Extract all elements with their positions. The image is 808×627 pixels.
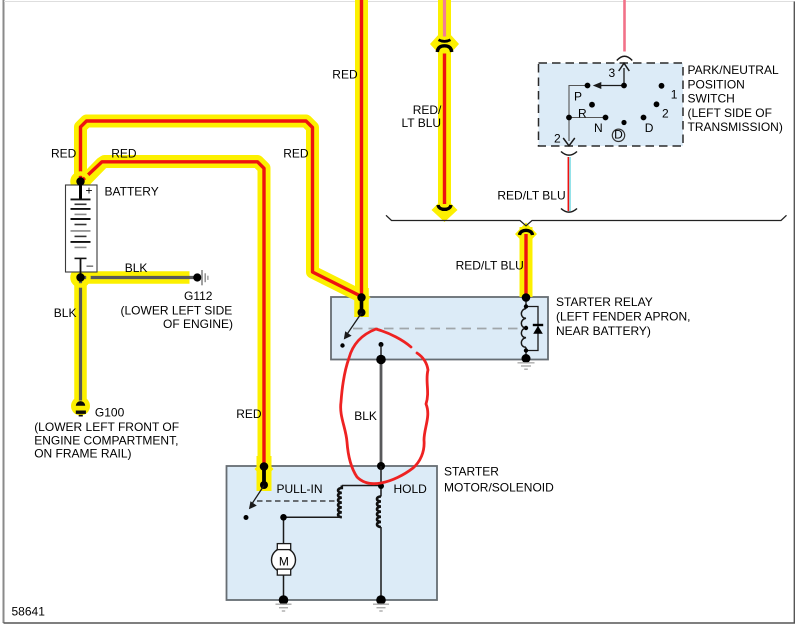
svg-text:POSITION: POSITION <box>688 77 745 91</box>
hl stub battery top <box>75 180 87 199</box>
wire hl: RED/LT BLU vertical feed <box>438 0 451 216</box>
svg-text:+: + <box>86 184 93 198</box>
svg-text:2: 2 <box>554 132 561 146</box>
wiper arrowhead <box>593 82 602 89</box>
solenoid switch blade (open contact arrow) <box>252 486 265 505</box>
wire: RED/LT BLU pair switch pin2 to bus (red + lt blue) <box>567 157 569 211</box>
wire: BLK battery- down to G100 <box>79 274 82 401</box>
wire: RED battery+ to relay switch (corner run) <box>81 121 362 297</box>
relay switch input terminal stub <box>360 298 364 313</box>
svg-text:RED: RED <box>332 68 358 82</box>
svg-text:3: 3 <box>609 66 616 80</box>
svg-text:RED: RED <box>236 407 262 421</box>
pull-in coil winding <box>338 486 342 518</box>
wire: pink RED/LT BLU to park/neutral switch pin 3 <box>623 0 626 52</box>
svg-text:G100: G100 <box>95 406 125 420</box>
battery top stub <box>79 182 82 199</box>
wire: BLK relay to starter motor hold <box>380 360 383 467</box>
switch wiper and contact wiring <box>599 68 624 86</box>
hl blob G100 <box>71 397 90 416</box>
motor bottom ground nodes <box>279 595 289 605</box>
connector caps on RED/LT BLU feed (inline pair) <box>439 40 451 42</box>
solenoid fixed contact <box>244 515 249 520</box>
circled D indicator <box>612 129 624 141</box>
svg-text:SWITCH: SWITCH <box>688 92 735 106</box>
bus brace RED/LT BLU <box>386 215 787 226</box>
relay coil nodes <box>522 293 531 302</box>
hl diamond motor terminal <box>255 459 274 479</box>
park/neutral position switch box <box>539 63 684 146</box>
relay switch blade (open contact arrow) <box>347 313 362 335</box>
relay ground symbol <box>518 363 535 369</box>
svg-text:HOLD: HOLD <box>394 482 428 496</box>
svg-text:RED: RED <box>283 146 309 160</box>
relay output node to BLK wire <box>379 342 384 347</box>
svg-text:RED/LT BLU: RED/LT BLU <box>456 259 524 273</box>
starter motor/solenoid box <box>227 466 438 600</box>
R row link line <box>569 117 606 119</box>
diode (relay clamp) <box>533 324 543 326</box>
ground under hold coil <box>373 604 389 611</box>
svg-text:ENGINE COMPARTMENT,: ENGINE COMPARTMENT, <box>34 433 178 447</box>
svg-text:M: M <box>279 554 289 568</box>
svg-text:RED: RED <box>111 146 137 160</box>
svg-text:2: 2 <box>662 106 669 120</box>
svg-text:PULL-IN: PULL-IN <box>277 482 323 496</box>
halo ring battery - <box>73 270 89 286</box>
wire hl: BLK battery- to G100 <box>74 274 87 403</box>
svg-text:RED/: RED/ <box>413 103 442 117</box>
relay coil L1 <box>525 298 527 309</box>
battery box <box>66 185 98 272</box>
motor dashed actuation line <box>257 500 336 502</box>
wire hl: BLK battery- to G112 <box>77 271 190 284</box>
wiper line to P <box>599 85 624 87</box>
hl diamond inline connector upper <box>430 28 459 60</box>
pull-in coil top link to hold junction <box>342 485 381 487</box>
P contact to pin 2 exit path <box>569 86 588 142</box>
hold coil line from top <box>377 462 385 470</box>
svg-text:–: – <box>87 258 94 272</box>
hl blob battery - terminal <box>72 269 89 286</box>
svg-text:(LEFT SIDE OF: (LEFT SIDE OF <box>688 106 772 120</box>
wire: RED from bus female connector to relay coil <box>524 234 527 297</box>
svg-text:G112: G112 <box>184 289 213 303</box>
svg-text:58641: 58641 <box>12 605 46 619</box>
ground G112 symbol <box>193 270 208 285</box>
svg-text:(LOWER LEFT SIDE: (LOWER LEFT SIDE <box>121 303 233 317</box>
page border bottom <box>4 622 796 624</box>
page border left <box>3 0 5 623</box>
BATTERY <box>66 177 98 281</box>
motor M symbol <box>272 548 296 572</box>
svg-text:TRANSMISSION): TRANSMISSION) <box>688 120 783 134</box>
connector smile below switch pin 2 <box>561 152 577 156</box>
wire: RED battery+ to starter motor pull-in <box>81 162 265 466</box>
connector cap at bus (male, cup up) <box>438 205 451 209</box>
svg-text:D: D <box>645 121 654 135</box>
wire hl: bus to relay coil <box>520 227 533 297</box>
switch contact dots P/R/N/D/1/2 <box>566 83 664 126</box>
relay fixed contact <box>340 343 344 347</box>
wire hl: relay switch terminal stub <box>354 288 369 317</box>
svg-text:P: P <box>574 90 582 104</box>
wire hl: motor pull-in terminal stub <box>257 456 272 491</box>
svg-text:OF ENGINE): OF ENGINE) <box>163 317 233 331</box>
connector cap below bus (female, arch) <box>520 230 533 235</box>
svg-text:BLK: BLK <box>54 306 77 320</box>
svg-text:1: 1 <box>671 88 678 102</box>
battery - terminal node <box>76 273 84 281</box>
relay dashed actuation line <box>353 328 520 330</box>
svg-text:BLK: BLK <box>125 261 148 275</box>
svg-text:LT BLU: LT BLU <box>402 116 442 130</box>
wire hl: vertical RED feed to relay switch <box>355 0 368 297</box>
YELLOW HIGHLIGHT LAYER <box>77 0 526 491</box>
wire hl: battery+ to relay (upper run) <box>81 121 362 297</box>
svg-text:BATTERY: BATTERY <box>105 185 159 199</box>
svg-text:ON FRAME RAIL): ON FRAME RAIL) <box>34 447 131 461</box>
page border right <box>793 2 795 624</box>
pin 3 arrowhead (up) <box>619 63 630 71</box>
wire: RED segment to bus male connector <box>443 54 446 205</box>
wire: BLK battery- to G112 <box>77 276 194 279</box>
svg-text:R: R <box>578 107 587 121</box>
pin 2 exit arrowhead <box>563 138 575 146</box>
hl diamond relay terminal <box>353 289 371 307</box>
svg-text:STARTER RELAY: STARTER RELAY <box>556 295 653 309</box>
svg-text:BLK: BLK <box>354 409 377 423</box>
connector smile above bus at pin2 wire <box>561 209 577 213</box>
ground G100 symbol <box>76 401 86 415</box>
wire: RED vertical from top to relay switch terminal <box>360 0 363 297</box>
hold coil winding <box>377 496 381 527</box>
svg-text:STARTER: STARTER <box>444 465 499 479</box>
svg-text:N: N <box>594 121 603 135</box>
svg-text:RED/LT BLU: RED/LT BLU <box>497 189 565 203</box>
svg-text:(LEFT FENDER APRON,: (LEFT FENDER APRON, <box>556 310 690 324</box>
pull-in coil bottom link to motor <box>284 517 342 543</box>
hl blob battery + terminal <box>72 173 89 190</box>
svg-text:(LOWER LEFT FRONT OF: (LOWER LEFT FRONT OF <box>34 420 179 434</box>
battery bottom T <box>75 257 87 259</box>
ground under motor <box>276 604 292 611</box>
svg-text:NEAR BATTERY): NEAR BATTERY) <box>556 324 651 338</box>
svg-text:D: D <box>614 128 623 142</box>
red hand-drawn annotation loop around BLK wire <box>341 329 428 484</box>
relay diode branch <box>526 307 538 351</box>
pin 3 arrow line <box>623 68 625 86</box>
battery + terminal node <box>76 177 84 185</box>
starter relay box <box>331 297 548 360</box>
svg-text:PARK/NEUTRAL: PARK/NEUTRAL <box>688 63 779 77</box>
wire: RED/LT BLU pink segment from top <box>443 0 446 37</box>
svg-text:RED: RED <box>51 146 77 160</box>
hl diamond bus connector female <box>515 223 537 246</box>
page border top <box>4 1 795 3</box>
halo ring battery + <box>73 174 89 190</box>
svg-text:MOTOR/SOLENOID: MOTOR/SOLENOID <box>444 481 554 495</box>
hl diamond bus connector male <box>432 197 458 222</box>
wire hl: battery+ to starter motor (lower run) <box>82 162 265 467</box>
solenoid pull-in input terminal stub <box>262 467 266 486</box>
connector arch above switch pin 3 <box>617 56 632 60</box>
battery plates <box>71 198 91 200</box>
